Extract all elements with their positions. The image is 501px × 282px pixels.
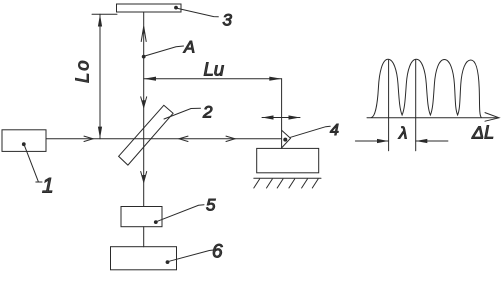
mirror 4 carriage box <box>257 148 319 172</box>
beam splitter 2 (tilted plate) <box>119 105 174 165</box>
dimension Lu arrow right <box>269 77 281 81</box>
svg-text:A: A <box>183 39 195 57</box>
svg-text:λ: λ <box>398 124 407 143</box>
node A: dot <box>142 55 146 59</box>
mirror 3 <box>117 4 182 12</box>
svg-text:3: 3 <box>223 10 233 29</box>
interference fringes curve <box>371 59 481 117</box>
node: dot in box 6 <box>166 260 170 264</box>
dimension Lo arrow down <box>98 127 102 139</box>
lambda extension line 1 <box>388 60 390 151</box>
mirror 4 reflecting wedge <box>282 130 291 148</box>
source box 1 <box>2 130 46 152</box>
svg-text:6: 6 <box>212 242 223 263</box>
node: dot at mirror 4 <box>283 138 287 142</box>
dimension Lo line <box>99 14 101 139</box>
ground hatching <box>254 179 260 188</box>
dimension Lu line <box>144 78 282 80</box>
beam arrow right toward mirror 4 <box>226 136 235 141</box>
svg-text:ΔL: ΔL <box>471 122 494 142</box>
svg-text:1: 1 <box>42 175 54 198</box>
svg-text:2: 2 <box>202 102 213 121</box>
dimension Lo extension line <box>92 13 117 15</box>
recorder box 6 <box>111 247 177 270</box>
leader for label A <box>145 46 183 56</box>
ground line <box>254 177 321 179</box>
beam arrow right after source <box>84 136 93 141</box>
leader for label 4 <box>291 126 331 137</box>
dimension Lo arrow up <box>98 14 102 26</box>
lambda dimension left segment <box>355 140 388 142</box>
svg-text:Lo: Lo <box>72 58 93 83</box>
leader for label 5 <box>157 205 204 222</box>
beam arrow up toward mirror 3 <box>141 27 146 42</box>
svg-text:4: 4 <box>330 122 339 139</box>
node: dot in box 1 <box>22 142 26 146</box>
lambda dimension right segment <box>416 140 448 142</box>
lambda extension line 2 <box>415 60 417 151</box>
leader for label 2 <box>164 108 201 119</box>
svg-text:5: 5 <box>206 196 216 215</box>
wire: box 5 to box 6 <box>143 227 145 247</box>
dimension Lu arrow left <box>144 77 156 81</box>
svg-text:Lu: Lu <box>204 59 225 80</box>
beam arrow down toward splitter <box>141 97 147 108</box>
fringe signal axis (ΔL) <box>367 117 498 119</box>
movement double arrow of mirror 4 <box>262 117 300 119</box>
leader for label 3 <box>178 8 219 16</box>
leader for label 1 <box>24 145 38 181</box>
node: dot on mirror 3 <box>174 6 178 10</box>
wire: horizontal beam from source to mirror 4 <box>46 138 282 140</box>
detector box 5 <box>121 207 162 227</box>
node: dot in box 5 <box>154 220 158 224</box>
beam arrow down toward detector <box>141 172 147 183</box>
beam arrow left (return beam) right of splitter <box>179 136 188 141</box>
leader for label 6 <box>169 250 215 261</box>
wire: vertical beam from mirror 3 through splitter to detector <box>143 12 145 207</box>
wire: vertical line from Lu down to movable mirror 4 <box>281 79 283 149</box>
